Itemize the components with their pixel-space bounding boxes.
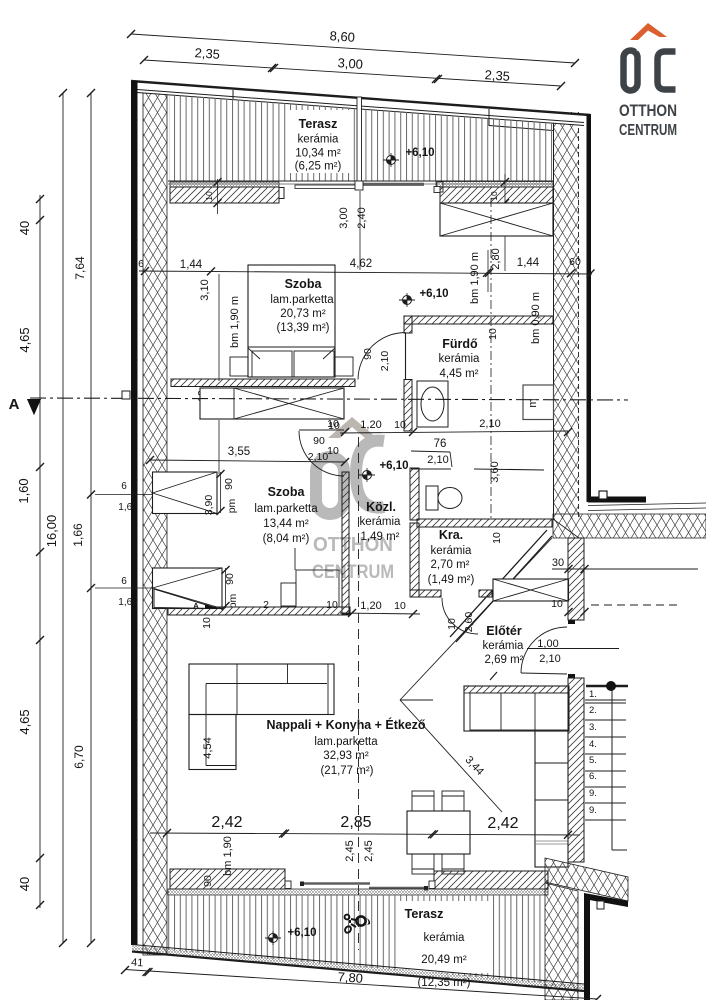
chairs (412, 791, 434, 811)
svg-text:(1,49 m²): (1,49 m²) (428, 574, 475, 586)
svg-text:bm 0,90 m: bm 0,90 m (530, 292, 542, 344)
svg-text:Nappali + Konyha + Étkező: Nappali + Konyha + Étkező (267, 717, 426, 732)
right exterior wall inner black line (587, 114, 592, 502)
stair rail line (611, 687, 613, 850)
svg-text:1.: 1. (589, 689, 597, 700)
svg-text:4,62: 4,62 (350, 258, 372, 270)
svg-text:7,80: 7,80 (337, 969, 363, 986)
left exterior wall inner black line (131, 81, 138, 945)
svg-text:10: 10 (491, 532, 503, 544)
bottom terrace labels (398, 901, 489, 973)
svg-text:Fürdő: Fürdő (442, 337, 478, 351)
svg-text:1,44: 1,44 (517, 257, 540, 269)
szoba 13,44 right wall (342, 472, 349, 614)
floor boundary lines with arrow (400, 538, 552, 700)
svg-text:2,35: 2,35 (194, 45, 220, 62)
diagonal wall (450, 530, 547, 637)
dim 3,10 vertical (218, 274, 220, 381)
svg-text:13,44 m²: 13,44 m² (263, 518, 309, 530)
wardrobe szoba wall (200, 388, 344, 419)
wall below szoba 20,73 (171, 379, 355, 387)
svg-text:20,73 m²: 20,73 m² (280, 308, 326, 320)
svg-text:41: 41 (131, 957, 144, 970)
svg-text:10: 10 (446, 618, 458, 630)
svg-text:30: 30 (552, 557, 564, 569)
section marker A left (27, 399, 41, 415)
door jamb marks (568, 620, 575, 624)
svg-text:2,10: 2,10 (479, 418, 500, 430)
right exterior wall insulation hatch upper (554, 112, 579, 519)
terasz label top (289, 110, 350, 173)
svg-text:(13,39 m²): (13,39 m²) (276, 322, 329, 334)
svg-text:Szoba: Szoba (285, 277, 323, 291)
fürdő left wall lower (404, 380, 412, 432)
toilet (426, 486, 438, 510)
svg-text:10: 10 (204, 191, 214, 201)
svg-text:pm: pm (226, 498, 238, 513)
svg-text:3,55: 3,55 (228, 446, 250, 458)
left dim line 2 16,00 (62, 93, 64, 943)
svg-text:A: A (9, 396, 20, 413)
level marker +6,10 bottom (265, 931, 281, 945)
svg-text:1,20: 1,20 (360, 419, 381, 431)
svg-text:6: 6 (138, 258, 144, 270)
svg-text:(8,04 m²): (8,04 m²) (263, 533, 310, 545)
svg-text:pm: pm (227, 593, 239, 608)
svg-text:+6,10: +6,10 (419, 288, 448, 300)
svg-text:kerámia: kerámia (424, 932, 466, 944)
svg-text:3,10: 3,10 (199, 279, 211, 300)
bedside table left (230, 357, 248, 376)
svg-text:(21,77 m²): (21,77 m²) (320, 765, 373, 777)
kitchen counter (464, 686, 569, 731)
kra left wall (410, 523, 419, 597)
nappali bottom window sill left (170, 869, 285, 889)
svg-text:10: 10 (201, 617, 213, 629)
terrace dotted strip (168, 889, 548, 895)
parapet thickness dim (217, 179, 219, 214)
terrace parapet dotted strip left (170, 182, 279, 187)
svg-text:1,60: 1,60 (118, 597, 138, 608)
wall right of előtér upper (568, 538, 584, 620)
svg-text:2: 2 (263, 599, 269, 611)
top exterior wall band (131, 81, 590, 126)
svg-text:5.: 5. (589, 755, 597, 766)
svg-text:8,60: 8,60 (329, 28, 355, 45)
left dim line 3 (90, 93, 92, 943)
level marker +6,10 terrace (383, 153, 399, 167)
eaves lines right (588, 503, 706, 506)
bedside table right (335, 357, 353, 376)
svg-text:kerámia: kerámia (298, 134, 340, 146)
svg-text:1,60: 1,60 (16, 478, 31, 503)
svg-text:1,49 m²: 1,49 m² (361, 531, 400, 543)
wc top walls (411, 468, 451, 470)
svg-text:90: 90 (224, 573, 236, 585)
black corner bar (588, 497, 646, 503)
svg-text:Terasz: Terasz (299, 117, 338, 131)
wc left wall (410, 468, 419, 520)
section marker arrow bottom (154, 589, 218, 609)
svg-text:bm 1,90 m: bm 1,90 m (229, 296, 241, 348)
svg-text:lam.parketta: lam.parketta (270, 294, 334, 306)
svg-text:90: 90 (223, 478, 235, 490)
kitchen tall cabinet (535, 731, 568, 867)
svg-text:3.: 3. (589, 722, 597, 733)
svg-text:10: 10 (487, 328, 499, 340)
svg-text:6: 6 (121, 576, 127, 587)
dim 1,20 10 passage (340, 613, 420, 614)
svg-text:10: 10 (327, 445, 339, 457)
terrace parapet left (170, 187, 279, 203)
bottom stair wall hatch (545, 858, 628, 901)
svg-text:2,70 m²: 2,70 m² (431, 559, 470, 571)
svg-text:2,40: 2,40 (356, 207, 368, 228)
top terrace floor hatch (169, 95, 553, 182)
level marker +6,10 közl (359, 468, 375, 482)
svg-text:4.: 4. (589, 739, 597, 750)
svg-text:2,45: 2,45 (344, 840, 356, 861)
wardrobe top right (440, 203, 553, 236)
valve symbol (344, 915, 366, 934)
right horizontal wall hatch band (553, 514, 706, 538)
svg-text:4,54: 4,54 (202, 737, 214, 758)
section line A-A (30, 398, 628, 400)
svg-text:2,80: 2,80 (490, 248, 502, 269)
top wall joint right (488, 109, 490, 126)
svg-text:kerámia: kerámia (483, 640, 525, 652)
terrace sliding door panel outlined (295, 185, 357, 189)
svg-text:6,70: 6,70 (72, 745, 86, 769)
svg-text:6: 6 (121, 481, 127, 492)
dining table (407, 811, 470, 854)
svg-text:1,20: 1,20 (360, 600, 381, 612)
bottom edge of terrace (132, 945, 584, 985)
svg-text:10,34 m²: 10,34 m² (295, 148, 341, 160)
bottom right black wall lines (584, 893, 628, 907)
dim 8,60 (131, 34, 575, 63)
svg-text:1,44: 1,44 (180, 259, 203, 271)
svg-text:16,00: 16,00 (44, 515, 59, 548)
svg-text:1,60: 1,60 (118, 502, 138, 513)
window box 1 (153, 472, 218, 514)
interior wall below terrace right (440, 187, 553, 203)
svg-text:+6,10: +6,10 (287, 927, 316, 939)
svg-text:7,64: 7,64 (73, 256, 87, 280)
svg-text:2,35: 2,35 (484, 67, 510, 84)
kra bottom wall left (410, 590, 441, 597)
svg-text:+6,10: +6,10 (405, 147, 434, 159)
svg-text:10: 10 (327, 418, 339, 430)
door hinge square (599, 491, 607, 499)
left exterior wall insulation hatch (143, 86, 167, 955)
svg-text:2,10: 2,10 (539, 653, 560, 665)
terrace sliding door panel gray (361, 183, 424, 186)
svg-text:Terasz: Terasz (405, 907, 444, 921)
wall right of kitchen (568, 678, 584, 862)
terrace divider wall (357, 97, 362, 181)
dim 3,55 (150, 460, 345, 462)
szoba 13,44 door (299, 429, 344, 431)
svg-text:40: 40 (17, 877, 32, 891)
svg-text:2.: 2. (589, 705, 597, 716)
svg-text:2,69 m²: 2,69 m² (485, 654, 524, 666)
bed (248, 265, 335, 377)
svg-text:A: A (193, 601, 199, 610)
dim line below fürdő (340, 431, 568, 433)
dim row 2,42 2,85 2,42 (150, 833, 580, 835)
svg-text:3,00: 3,00 (337, 55, 363, 72)
kra bottom wall right (479, 590, 492, 597)
nappali bottom window sill right (434, 871, 548, 889)
svg-text:32,93 m²: 32,93 m² (323, 750, 369, 762)
svg-text:2,10: 2,10 (379, 351, 391, 372)
svg-text:2,42: 2,42 (211, 814, 242, 831)
szoba-fürdő door (405, 333, 407, 380)
svg-text:20,49 m²: 20,49 m² (421, 954, 467, 966)
svg-text:60: 60 (569, 256, 581, 268)
svg-text:lam.parketta: lam.parketta (314, 736, 378, 748)
desk szoba 13,44 (281, 583, 296, 606)
sliding door panel 2 (369, 887, 427, 890)
svg-text:Közl.: Közl. (366, 500, 396, 514)
svg-text:9.: 9. (589, 805, 597, 816)
right strip thickness dim (504, 174, 506, 271)
nappali axis dashed (358, 437, 360, 950)
door jambs bottom (285, 881, 291, 889)
stairs (586, 685, 628, 688)
svg-text:Kra.: Kra. (439, 528, 463, 542)
svg-text:lam.parketta: lam.parketta (254, 503, 318, 515)
washing machine (523, 385, 554, 420)
wall dotted strip right of terrace (436, 182, 553, 188)
svg-text:4,65: 4,65 (17, 709, 32, 734)
dashed line right (591, 604, 678, 606)
svg-text:3,00: 3,00 (338, 207, 350, 228)
dim 2,35 3,00 2,35 (144, 60, 561, 86)
svg-text:1,66: 1,66 (71, 523, 85, 547)
dim 7,80 (125, 970, 597, 1000)
svg-text:2,42: 2,42 (487, 815, 518, 832)
svg-text:bm 1,90 m: bm 1,90 m (469, 252, 481, 304)
svg-text:(6,25 m²): (6,25 m²) (295, 161, 342, 173)
svg-text:kerámia: kerámia (439, 353, 481, 365)
svg-text:90: 90 (313, 435, 325, 447)
svg-text:10: 10 (551, 598, 563, 610)
bottom terrace floor hatch (168, 895, 545, 983)
wardrobe előtér (493, 579, 569, 601)
kra door (442, 598, 478, 634)
fürdő top wall (404, 316, 553, 324)
svg-text:10: 10 (394, 419, 406, 431)
fürdő left wall upper (404, 316, 412, 333)
svg-text:9.: 9. (589, 788, 597, 799)
svg-text:CENTRUM: CENTRUM (312, 562, 394, 583)
szoba 13,44 bottom wall (168, 607, 350, 615)
svg-text:OTTHON: OTTHON (619, 101, 677, 120)
top terrace inner edge (168, 180, 553, 182)
dimension line 1,44 4,62 1,44 (139, 271, 592, 274)
svg-text:4,45 m²: 4,45 m² (440, 368, 479, 380)
svg-text:Előtér: Előtér (486, 624, 522, 638)
window box 2 (153, 568, 223, 609)
svg-text:kerámia: kerámia (360, 516, 402, 528)
level marker +6,10 szoba (399, 293, 415, 307)
svg-text:CENTRUM: CENTRUM (619, 122, 677, 139)
sliding door panel 1 (301, 882, 370, 885)
washbasin (417, 381, 448, 427)
bottom right corner wall hatch (545, 883, 578, 1000)
svg-text:3,90: 3,90 (203, 495, 215, 516)
svg-text:90: 90 (362, 348, 374, 360)
svg-text:2,10: 2,10 (308, 451, 329, 463)
svg-text:2,45: 2,45 (363, 840, 375, 861)
svg-text:40: 40 (17, 221, 32, 235)
sofa (189, 664, 334, 715)
watermark otthon centrum logo (312, 417, 394, 583)
svg-text:76: 76 (434, 438, 447, 450)
svg-text:6.: 6. (589, 771, 597, 782)
wc axis dash-dot (490, 198, 492, 519)
svg-text:+6,10: +6,10 (379, 460, 408, 472)
svg-text:10: 10 (326, 599, 338, 611)
svg-text:10: 10 (394, 600, 406, 612)
svg-text:4,65: 4,65 (17, 327, 32, 352)
stair landing edge (527, 648, 619, 650)
entrance door (521, 673, 567, 674)
otthon centrum logo (619, 23, 677, 139)
kra top wall (417, 519, 552, 527)
svg-text:kerámia: kerámia (431, 545, 473, 557)
svg-text:10: 10 (489, 191, 499, 201)
svg-text:Szoba: Szoba (268, 485, 306, 499)
svg-text:2,10: 2,10 (427, 454, 448, 466)
svg-text:2,85: 2,85 (340, 814, 371, 831)
left dim line 1 (39, 195, 41, 908)
